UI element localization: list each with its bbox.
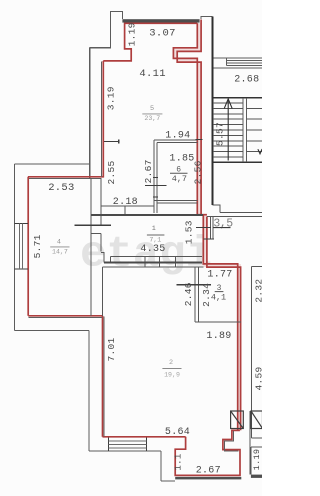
svg-text:23,7: 23,7 xyxy=(144,115,160,122)
wall room1/room4 inner line lower xyxy=(100,234,102,252)
red hall wall inner line xyxy=(203,215,237,430)
stair stringer line b xyxy=(246,98,248,162)
room6 top wall inner xyxy=(157,142,198,144)
landing window jamb xyxy=(225,58,227,66)
room6 left wall inner upper xyxy=(156,143,158,213)
wall room1/room4 outer line xyxy=(90,178,92,316)
svg-text:1.85: 1.85 xyxy=(169,154,194,165)
corridor bottom band line3 xyxy=(103,266,204,268)
room3 bottom wall xyxy=(195,321,241,323)
red room5 left wall xyxy=(102,61,104,178)
svg-text:2.56: 2.56 xyxy=(193,160,204,184)
svg-text:4: 4 xyxy=(57,239,61,247)
stair top line xyxy=(213,97,263,99)
svg-text:2: 2 xyxy=(169,359,173,367)
door stub wall line a xyxy=(210,216,212,238)
red hall wall outer line xyxy=(207,217,241,431)
corridor band jamb a xyxy=(109,257,111,263)
landing window line3 xyxy=(226,62,262,64)
neighbor room right wall xyxy=(251,267,253,438)
stair down arrow xyxy=(258,149,262,154)
neighbor room right bottom xyxy=(252,437,262,439)
stair bottom line xyxy=(213,161,263,163)
room6 top wall outer xyxy=(154,139,197,141)
corridor band jamb b xyxy=(144,257,146,267)
red niche step xyxy=(175,430,240,475)
svg-text:1.1: 1.1 xyxy=(174,453,184,470)
outer gray room4 left xyxy=(14,164,16,331)
wall left of room2 inner xyxy=(102,267,104,316)
outer gray room4 top xyxy=(15,163,90,165)
stair stringer line a xyxy=(242,98,244,162)
stairwell left wall xyxy=(211,16,213,205)
outer gray room2 left xyxy=(88,331,90,451)
room2 top thick line xyxy=(104,262,202,264)
red room4 bottom wall xyxy=(28,315,102,317)
door tick room5 right xyxy=(195,138,202,140)
stair door right wall xyxy=(249,411,251,475)
corridor bottom band line1 xyxy=(110,256,202,258)
gray shadow lines along red walls xyxy=(29,62,239,452)
svg-text:4,1: 4,1 xyxy=(211,293,226,303)
svg-text:2.67: 2.67 xyxy=(196,466,221,477)
landing window line1 xyxy=(213,57,263,59)
landing bottom wall lower xyxy=(207,215,262,217)
red right wall inner line upper xyxy=(173,23,197,215)
svg-text:2.32: 2.32 xyxy=(254,279,262,303)
top exterior wall dark band xyxy=(122,19,199,22)
bottom thick dark band right of stair door xyxy=(251,475,262,478)
svg-text:1.19: 1.19 xyxy=(127,22,138,46)
red top wall line room5 xyxy=(124,22,197,24)
outer gray room2 bottom xyxy=(89,450,161,452)
svg-text:14,7: 14,7 xyxy=(52,248,68,255)
red room4 left wall xyxy=(27,177,29,316)
door tick room3 xyxy=(177,284,211,286)
room6 bottom wall outer xyxy=(154,199,197,201)
svg-text:2.67: 2.67 xyxy=(143,159,154,183)
window room2 bottom xyxy=(109,438,147,451)
wall fill right of room2 xyxy=(238,267,241,430)
wall fill right boundary upper xyxy=(173,23,201,215)
stair treads right flight xyxy=(247,109,262,152)
shadow under room4 top wall xyxy=(29,177,101,179)
outer gray left vertical (neighbor wall) xyxy=(89,48,91,178)
wall fill hall horizontal xyxy=(207,264,241,267)
wall room1/room4 inner line upper xyxy=(100,178,102,225)
svg-text:3.07: 3.07 xyxy=(149,28,175,40)
landing window line2 xyxy=(226,60,262,62)
svg-text:1.19: 1.19 xyxy=(252,449,262,471)
outer gray niche left xyxy=(160,451,162,481)
landing bottom line xyxy=(213,67,263,69)
svg-text:4.35: 4.35 xyxy=(140,244,165,255)
wall room2/room3 line b xyxy=(198,267,200,322)
shadow of S-steps xyxy=(224,431,238,451)
vent shaft box 2 xyxy=(251,411,263,429)
landing bottom jog xyxy=(213,205,221,213)
bottom thick dark band left of stair door xyxy=(175,477,241,480)
stair up arrow xyxy=(224,99,232,161)
red room2 bottom wall xyxy=(103,436,186,438)
door tick balcony xyxy=(196,226,211,228)
svg-text:4.11: 4.11 xyxy=(139,68,165,80)
red room2 left wall xyxy=(102,316,104,437)
svg-text:19,9: 19,9 xyxy=(164,372,180,379)
svg-text:2.68: 2.68 xyxy=(234,74,259,85)
shadow under room4 bottom wall xyxy=(29,316,103,318)
door tick room5 left xyxy=(104,140,119,144)
shadow right of room2 left wall xyxy=(103,317,105,437)
red room4 top wall xyxy=(28,176,104,178)
lower right room top xyxy=(251,446,262,448)
svg-text:7,1: 7,1 xyxy=(149,237,161,244)
corridor band jamb d xyxy=(175,257,177,267)
door stub bottom tick xyxy=(204,238,215,240)
corridor band thick line xyxy=(91,214,203,216)
outer gray outline top-left steps xyxy=(90,11,123,47)
svg-text:1: 1 xyxy=(152,225,156,233)
step to corridor band xyxy=(101,252,104,262)
svg-text:3,5: 3,5 xyxy=(213,217,233,230)
svg-text:3.19: 3.19 xyxy=(106,86,117,110)
red jog at landing wall xyxy=(197,214,207,216)
svg-text:4,7: 4,7 xyxy=(172,174,187,184)
svg-text:5: 5 xyxy=(150,105,154,113)
shadow right of room5 left wall xyxy=(101,62,103,178)
svg-text:7.01: 7.01 xyxy=(106,337,117,361)
vent shaft box 1 xyxy=(231,411,244,429)
room6 left wall outer upper xyxy=(153,140,155,213)
svg-text:2.18: 2.18 xyxy=(113,197,138,208)
door tick room6 xyxy=(145,185,167,187)
stair treads left flight xyxy=(213,103,243,157)
red right wall outer line upper xyxy=(177,20,201,216)
outer gray niche bottom xyxy=(161,480,175,482)
corridor wall tick xyxy=(124,206,126,215)
stairwell column top xyxy=(201,16,212,19)
svg-text:1.77: 1.77 xyxy=(207,269,232,280)
corridor upper line xyxy=(101,205,154,207)
red jog left end of top wall xyxy=(103,23,131,61)
door jamb connector xyxy=(91,233,101,235)
svg-text:2.55: 2.55 xyxy=(106,160,117,184)
wall fill hall vertical xyxy=(203,215,207,267)
svg-text:5.57: 5.57 xyxy=(214,122,225,146)
neighbor room right top xyxy=(252,266,262,268)
corridor band jamb c xyxy=(158,257,160,267)
room6 bottom wall inner xyxy=(157,202,198,204)
svg-text:5.71: 5.71 xyxy=(32,234,43,258)
door tick room4 entry xyxy=(75,224,112,226)
window room4 left xyxy=(15,224,28,270)
door stub wall line b xyxy=(212,216,214,238)
lower right room left wall xyxy=(250,447,252,475)
svg-text:5.64: 5.64 xyxy=(165,427,190,438)
svg-text:2.53: 2.53 xyxy=(48,182,74,194)
svg-text:1.89: 1.89 xyxy=(206,331,231,342)
svg-text:1.53: 1.53 xyxy=(184,220,195,244)
svg-text:2.46: 2.46 xyxy=(183,282,194,306)
landing bottom wall upper xyxy=(220,211,262,213)
svg-text:1.94: 1.94 xyxy=(165,130,190,141)
room labels xyxy=(50,105,226,378)
wall room2/room3 line a xyxy=(194,267,196,322)
outer gray room4 bottom xyxy=(15,330,90,332)
landing window line4 xyxy=(226,65,262,67)
dimension texts xyxy=(32,22,265,476)
red double wall fills (flat boundary right side) xyxy=(173,23,241,430)
svg-text:4.59: 4.59 xyxy=(254,366,262,390)
